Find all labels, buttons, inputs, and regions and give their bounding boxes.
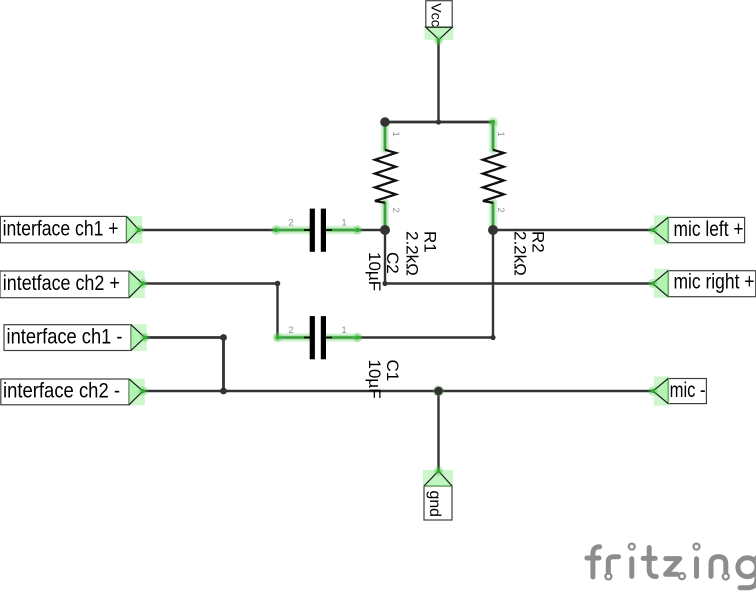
logo letter i (first)	[629, 559, 634, 577]
resistor R1	[375, 122, 401, 230]
svg-text:mic -: mic -	[670, 379, 706, 402]
junction node E (gnd / mic-)	[433, 385, 444, 396]
wire interface ch1 + to C2 pin 2	[139, 229, 276, 231]
net flag interface ch1 -	[4, 324, 150, 351]
logo letter t	[649, 548, 656, 577]
svg-text:interface ch2 -: interface ch2 -	[3, 380, 120, 403]
net flag mic left +	[648, 215, 744, 244]
net flag intetface ch2 +	[0, 271, 148, 298]
bendpoint ch2+ corner	[275, 281, 281, 287]
logo letter r	[608, 557, 618, 573]
bendpoint node A corner	[382, 281, 387, 286]
junction node A (R1 pin2 / C2 pin1)	[380, 225, 390, 235]
net flag mic -	[648, 377, 706, 406]
wire intetface ch2 + to C1 pin 2	[143, 284, 278, 338]
svg-text:2: 2	[288, 325, 293, 336]
logo letter g	[738, 558, 756, 577]
label C1 10µF	[365, 360, 402, 399]
logo letter i (second)	[694, 559, 699, 577]
svg-text:Vcc: Vcc	[429, 3, 445, 27]
logo letter n	[711, 557, 726, 577]
wire node B to mic left +	[493, 229, 653, 231]
bendpoint ch1- corner	[220, 334, 227, 341]
svg-text:intetface ch2 +: intetface ch2 +	[3, 272, 120, 295]
svg-text:mic right +: mic right +	[674, 271, 755, 294]
svg-text:1: 1	[495, 132, 506, 137]
capacitor C2	[271, 209, 362, 252]
svg-text:2: 2	[288, 218, 293, 229]
net flag interface ch2 -	[1, 379, 148, 406]
svg-text:2: 2	[390, 208, 401, 213]
wire interface ch2 - to mic -	[143, 390, 653, 392]
svg-text:1: 1	[341, 218, 346, 229]
logo pad rings	[629, 544, 635, 550]
net flag interface ch1 +	[0, 216, 143, 243]
wire gnd	[437, 391, 439, 471]
wire interface ch1 - to node D	[145, 338, 224, 392]
svg-text:1: 1	[390, 132, 401, 137]
svg-text:2: 2	[495, 208, 506, 213]
logo letter z	[666, 559, 680, 575]
svg-text:mic left +: mic left +	[674, 218, 744, 241]
junction node B (R2 pin2)	[488, 225, 498, 235]
logo letter f	[593, 547, 600, 577]
svg-text:1: 1	[341, 325, 346, 336]
svg-text:interface ch1 -: interface ch1 -	[7, 325, 123, 348]
wire C2 pin 1 to node A	[358, 229, 386, 231]
label R1 2.2kΩ	[403, 231, 440, 276]
net flag gnd	[423, 466, 453, 520]
wire Vcc to top rail	[437, 41, 439, 122]
fritzing logo	[587, 544, 756, 588]
resistor R2	[483, 117, 506, 230]
svg-text:interface ch1 +: interface ch1 +	[3, 218, 119, 241]
wire C1 pin 1 to node C	[358, 336, 494, 338]
net flag mic right +	[648, 269, 755, 298]
bendpoint node C (C1 pin1 / R2 wire)	[490, 335, 495, 340]
bendpoint on top rail at Vcc	[436, 119, 441, 124]
capacitor C1	[273, 316, 363, 359]
junction node at R1 pin1	[380, 117, 390, 127]
wire top rail	[385, 121, 493, 124]
junction node D (ch1- / ch2- wires)	[220, 388, 227, 395]
svg-text:gnd: gnd	[426, 491, 443, 518]
label C2 10µF	[365, 252, 402, 291]
wire node A down and right to mic right +	[385, 230, 653, 284]
label R2 2.2kΩ	[511, 231, 548, 276]
wire node B down to C1 pin 1 row	[492, 230, 494, 338]
net flag Vcc	[425, 1, 454, 46]
